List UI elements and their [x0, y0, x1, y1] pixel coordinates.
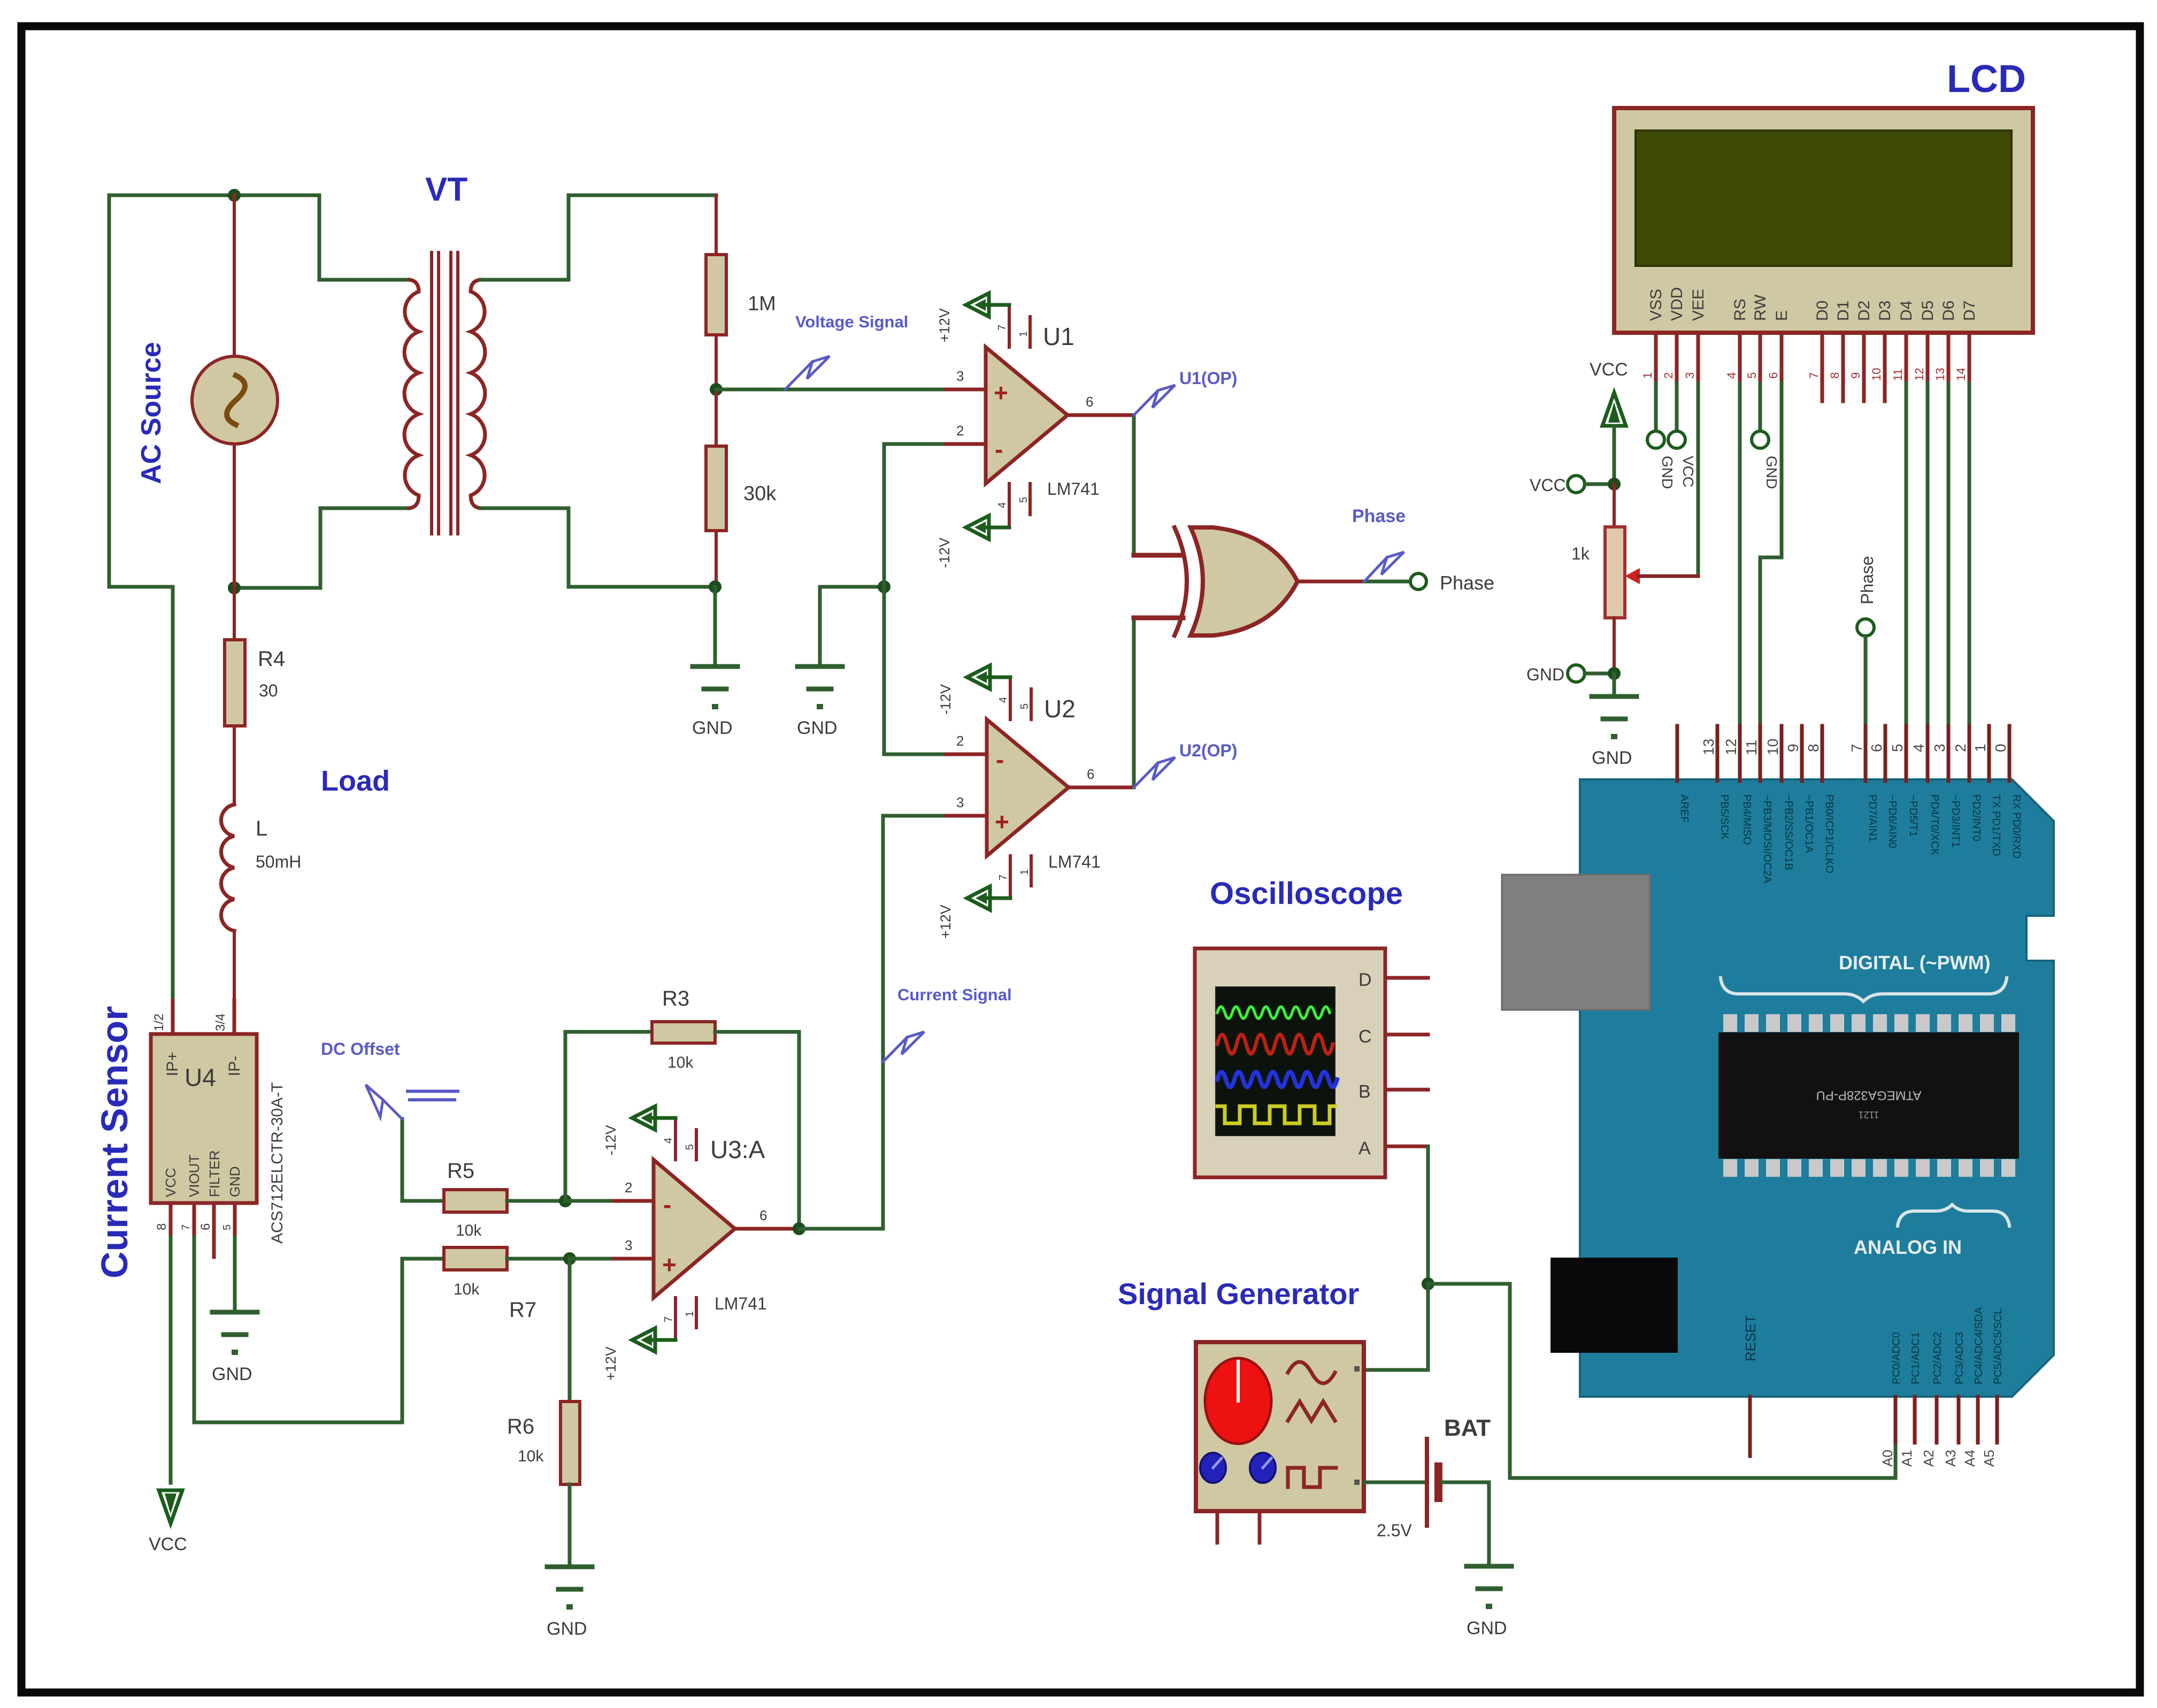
svg-text:1: 1 [684, 1311, 696, 1317]
svg-text:VDD: VDD [1668, 287, 1686, 321]
U4 pin stub IP+ [171, 1000, 175, 1034]
ATMEGA328P chip pads top [1723, 1014, 2015, 1032]
svg-text:5: 5 [1889, 744, 1906, 752]
svg-text:10k: 10k [456, 1222, 482, 1239]
svg-text:0: 0 [1992, 744, 2009, 752]
node: R7/R6 junction [563, 1252, 576, 1265]
svg-text:8: 8 [1828, 372, 1841, 379]
Arduino Uno board [1580, 779, 2054, 1397]
svg-text:GND: GND [1592, 748, 1632, 768]
svg-text:1/2: 1/2 [152, 1014, 166, 1031]
svg-text:R3: R3 [662, 987, 689, 1010]
node: VCC junction [1608, 478, 1621, 491]
resistor 1M [706, 255, 726, 335]
power +12V arrow at U2 bottom [988, 897, 1010, 900]
svg-text:PC1/ADC1: PC1/ADC1 [1910, 1332, 1922, 1384]
analog bracket [1898, 1205, 2009, 1226]
transformer VT secondary coil [471, 280, 485, 508]
op-amp U2 pin3 stub [883, 814, 946, 818]
resistor R3 right wire [715, 1032, 799, 1229]
svg-text:4: 4 [1910, 744, 1927, 752]
probe Voltage Signal [785, 362, 812, 389]
wire: AC source bottom lead [233, 442, 236, 588]
svg-text:Current Sensor: Current Sensor [94, 1006, 135, 1278]
svg-text:U1(OP): U1(OP) [1179, 369, 1237, 388]
LCD screen [1636, 131, 2012, 266]
svg-text:5: 5 [1745, 372, 1759, 379]
svg-text:10: 10 [1764, 739, 1781, 755]
Arduino top pin stubs [1677, 726, 2009, 781]
svg-text:12: 12 [1913, 368, 1926, 381]
XOR gate U5 [1175, 527, 1187, 635]
svg-text:7: 7 [663, 1316, 674, 1322]
AC source V1 [192, 356, 278, 444]
svg-text:D: D [1358, 970, 1372, 990]
U4 pin stub IP- [233, 1000, 236, 1034]
svg-text:RS: RS [1731, 298, 1749, 321]
svg-text:10: 10 [1870, 368, 1883, 381]
wire: voltage signal to U1 pin3 [716, 388, 946, 392]
svg-text:PC5/ADC5/SCL: PC5/ADC5/SCL [1992, 1308, 2004, 1384]
svg-text:U1: U1 [1043, 323, 1074, 350]
probe Phase [1364, 557, 1387, 581]
svg-text:3: 3 [625, 1237, 632, 1253]
svg-text:10k: 10k [454, 1281, 480, 1298]
svg-text:~PB2/SS/OC1B: ~PB2/SS/OC1B [1783, 794, 1794, 870]
svg-text:D6: D6 [1940, 301, 1958, 321]
wire: junction to U3A pin2 [565, 1199, 613, 1203]
signal generator output pins [1354, 1366, 1360, 1372]
svg-text:LM741: LM741 [1048, 852, 1101, 871]
node: U1/U2 inverting input junction [878, 580, 891, 593]
svg-text:Phase: Phase [1440, 572, 1494, 594]
wire: junction up to U1 pin2 and down to U2 pin2 [882, 444, 886, 754]
svg-text:VCC: VCC [1680, 456, 1697, 487]
node: 30k bottom junction [709, 580, 721, 593]
svg-text:-12V: -12V [603, 1125, 619, 1155]
svg-text:GND: GND [1659, 456, 1676, 489]
terminal VCC (VDD) [1668, 431, 1685, 448]
svg-text:PC4/ADC4/SDA: PC4/ADC4/SDA [1973, 1307, 1985, 1384]
svg-text:Load: Load [321, 765, 390, 797]
op-amp U1 [986, 347, 1068, 484]
svg-text:6: 6 [1086, 394, 1093, 410]
svg-text:TX PD1/TXD: TX PD1/TXD [1990, 794, 2002, 856]
svg-text:R4: R4 [258, 647, 285, 671]
terminal GND (RW) [1752, 431, 1769, 448]
svg-text:FILTER: FILTER [206, 1150, 222, 1197]
svg-text:R7: R7 [509, 1298, 536, 1322]
svg-text:7: 7 [996, 325, 1008, 331]
ground under R6 [547, 1567, 592, 1610]
op-amp U3:A [654, 1160, 735, 1298]
op-amp U2 [987, 719, 1069, 856]
svg-text:VEE: VEE [1690, 289, 1707, 321]
svg-text:9: 9 [1785, 744, 1801, 752]
svg-text:Phase: Phase [1857, 556, 1877, 604]
svg-text:6: 6 [1087, 766, 1094, 782]
svg-text:6: 6 [198, 1223, 213, 1230]
svg-text:VCC: VCC [163, 1168, 179, 1197]
svg-text:3: 3 [1683, 372, 1697, 379]
svg-text:7: 7 [1807, 372, 1821, 379]
wire: RW to GND terminal [1759, 384, 1762, 431]
power VCC down-arrow [159, 1490, 182, 1523]
svg-text:A4: A4 [1962, 1450, 1978, 1467]
svg-text:RW: RW [1752, 294, 1769, 321]
terminal Phase output [1410, 573, 1426, 589]
svg-text:Phase: Phase [1352, 506, 1406, 526]
svg-text:BAT: BAT [1444, 1415, 1491, 1441]
wire: U4 VIOUT to R7 input [194, 1237, 444, 1422]
wire: U1 out down to XOR input A [1132, 415, 1136, 555]
svg-text:VCC: VCC [1590, 359, 1628, 380]
svg-text:PC3/ADC3: PC3/ADC3 [1954, 1332, 1966, 1384]
potentiometer RV1 1k top lead [1613, 484, 1616, 527]
svg-text:14: 14 [1954, 368, 1968, 381]
svg-text:R6: R6 [507, 1415, 534, 1438]
power +12V arrow at U1 [987, 303, 1009, 307]
current sensor U4 ACS712 [151, 1034, 257, 1203]
wire: U2 out up to XOR input B [1132, 618, 1136, 787]
wire: R6 to ground [568, 1484, 572, 1567]
ATMEGA328P chip pads bottom [1723, 1159, 2015, 1177]
svg-text:13: 13 [1700, 739, 1717, 755]
resistor 1M leads [715, 195, 718, 255]
svg-text:VSS: VSS [1647, 289, 1665, 321]
svg-text:4: 4 [1725, 372, 1738, 379]
wire: U4 VCC pin down to VCC arrow [169, 1237, 173, 1483]
svg-text:10k: 10k [518, 1447, 544, 1465]
signal generator waveform glyphs [1288, 1362, 1335, 1383]
svg-text:1: 1 [1018, 331, 1030, 337]
Arduino top pin labels [1678, 794, 2022, 884]
svg-text:-: - [663, 1191, 671, 1219]
svg-text:A1: A1 [1899, 1450, 1915, 1467]
wire: left loop down to U4 IP+ column [109, 195, 173, 1000]
resistor R3 feedback left wire [565, 1032, 652, 1201]
probe Current Signal [883, 1037, 907, 1062]
svg-text:D1: D1 [1834, 301, 1852, 321]
U1 positive supply pins 7,1 [1008, 305, 1011, 347]
power -12V arrow at U2 top [988, 676, 1010, 679]
wire: VSS to GND terminal [1654, 384, 1658, 431]
svg-text:L: L [256, 817, 267, 840]
wire: Phase terminal down to Arduino pin 7 [1864, 636, 1868, 779]
svg-text:VCC: VCC [1530, 476, 1566, 495]
battery BAT 2.5V [1425, 1439, 1429, 1526]
Arduino analog pin labels [1891, 1307, 2004, 1384]
svg-text:PC2/ADC2: PC2/ADC2 [1932, 1332, 1944, 1384]
svg-text:D2: D2 [1855, 301, 1873, 321]
svg-text:+: + [994, 379, 1008, 407]
probe U1(OP) [1134, 390, 1158, 415]
svg-text:Oscilloscope: Oscilloscope [1210, 876, 1403, 911]
svg-text:C: C [1358, 1027, 1372, 1047]
scope trace yellow square [1217, 1106, 1335, 1123]
wire: U3A output pin6 [735, 1227, 799, 1231]
svg-text:D5: D5 [1919, 301, 1937, 321]
svg-text:~PB3/MOSI/OC2A: ~PB3/MOSI/OC2A [1761, 794, 1773, 884]
wire: VEE down to potentiometer wiper [1638, 384, 1698, 576]
svg-text:+12V: +12V [603, 1346, 619, 1381]
svg-text:D0: D0 [1814, 301, 1831, 321]
svg-text:IP-: IP- [226, 1056, 243, 1076]
ground under battery [1467, 1566, 1511, 1609]
power -12V arrow at U1 [987, 526, 1009, 530]
ground under 30k [693, 667, 738, 709]
svg-text:ACS712ELCTR-30A-T: ACS712ELCTR-30A-T [268, 1082, 286, 1244]
wire: AC source top lead [233, 195, 236, 358]
svg-text:+12V: +12V [938, 905, 954, 939]
signal generator bottom stubs [1216, 1511, 1219, 1543]
LCD pin numbers 1-14 [1641, 368, 1968, 381]
ground under U4 [212, 1312, 257, 1355]
wire: junction to U3A pin3 [570, 1257, 613, 1261]
power jack [1550, 1258, 1678, 1353]
svg-text:1k: 1k [1571, 544, 1590, 563]
wire: U2 output pin6 [1069, 786, 1134, 790]
SEC3 [1526, 58, 2033, 779]
svg-text:+: + [662, 1251, 677, 1278]
svg-text:GND: GND [547, 1619, 587, 1639]
oscilloscope screen [1216, 987, 1335, 1136]
power -12V arrow at U3A top [654, 1116, 675, 1120]
ATMEGA328P chip [1718, 1032, 2019, 1159]
svg-text:A3: A3 [1943, 1450, 1959, 1467]
svg-text:2: 2 [956, 423, 964, 439]
svg-text:3: 3 [956, 368, 964, 384]
svg-text:DIGITAL (~PWM): DIGITAL (~PWM) [1839, 952, 1991, 974]
node: U3A output junction [793, 1222, 805, 1235]
svg-text:GND: GND [797, 718, 838, 738]
svg-text:7: 7 [997, 875, 1009, 880]
scope trace blue [1217, 1072, 1337, 1087]
op-amp U1 pin3 stub [946, 388, 986, 392]
svg-text:30k: 30k [743, 482, 777, 505]
svg-text:~PD3/INT1: ~PD3/INT1 [1949, 794, 1961, 847]
wire: D5 to Arduino [1926, 384, 1930, 779]
U1 negative supply pins 4,5 [1008, 484, 1011, 527]
wire: U1 inverting node to GND [820, 587, 884, 667]
wire: L to U4 IP- [233, 931, 236, 1000]
svg-text:7: 7 [1848, 744, 1865, 752]
U2 negative supply pins 4,5 [1009, 677, 1012, 719]
resistor R6 top wire [568, 1259, 572, 1401]
U3A negative supply pins 4,5 [674, 1118, 677, 1160]
resistor R7 [444, 1247, 507, 1270]
signal generator body [1196, 1342, 1364, 1511]
node: AC bottom junction [228, 581, 241, 594]
U4 bottom pin stubs 8,7,6,5 [169, 1203, 173, 1237]
node: voltage divider tap [710, 383, 723, 396]
terminal GND (VSS) [1647, 431, 1664, 448]
wire: junction down-left to signal generator output [1365, 1284, 1428, 1370]
svg-text:-12V: -12V [937, 538, 953, 568]
scope trace green [1217, 1007, 1330, 1018]
svg-text:4: 4 [663, 1138, 674, 1144]
resistor 30k leads [715, 389, 718, 446]
wire: top loop from left corner to transformer primary top [109, 195, 409, 280]
svg-text:30: 30 [259, 681, 278, 700]
wire: secondary bottom lead [480, 508, 715, 587]
ground at U1 inverting network [797, 667, 842, 709]
wire: battery to ground [1442, 1482, 1489, 1566]
svg-text:U4: U4 [185, 1063, 216, 1091]
svg-text:5: 5 [221, 1224, 233, 1230]
svg-text:PD7/AIN1: PD7/AIN1 [1867, 794, 1878, 842]
svg-text:-12V: -12V [938, 684, 954, 715]
svg-text:LM741: LM741 [715, 1294, 767, 1313]
svg-text:PB4/MISO: PB4/MISO [1741, 794, 1753, 845]
node: GND junction [1608, 667, 1621, 680]
svg-text:D3: D3 [1876, 301, 1894, 321]
svg-text:~PD6/AIN0: ~PD6/AIN0 [1886, 794, 1898, 848]
svg-text:5: 5 [1018, 497, 1030, 503]
svg-text:50mH: 50mH [256, 852, 301, 871]
potentiometer RV1 1k [1605, 527, 1625, 618]
U2 positive supply pins 7,1 [1009, 856, 1012, 898]
svg-text:D4: D4 [1898, 301, 1915, 321]
svg-text:ANALOG IN: ANALOG IN [1854, 1236, 1962, 1258]
svg-text:A: A [1358, 1138, 1371, 1159]
resistor 30k [706, 446, 726, 531]
resistor R6 [561, 1401, 580, 1484]
svg-text:IP+: IP+ [164, 1052, 181, 1076]
Arduino analog pin stubs A0-A5 [1895, 1397, 1997, 1443]
svg-text:2: 2 [625, 1179, 632, 1196]
svg-text:GND: GND [1467, 1618, 1507, 1638]
svg-text:4: 4 [996, 502, 1008, 508]
wire: scope A down to junction [1426, 1146, 1430, 1284]
svg-text:VT: VT [425, 171, 467, 208]
svg-text:ATMEGA328P-PU: ATMEGA328P-PU [1816, 1088, 1922, 1102]
wire: XOR output [1298, 580, 1364, 584]
XOR gate input stubs [1134, 553, 1183, 558]
analog pin names A0-A5 [1879, 1450, 1997, 1467]
svg-text:-: - [996, 746, 1004, 773]
svg-text:1121: 1121 [1859, 1109, 1879, 1120]
node: R5/R3 junction [559, 1194, 572, 1207]
svg-text:U3:A: U3:A [710, 1136, 765, 1163]
svg-text:1: 1 [1972, 744, 1989, 752]
svg-text:8: 8 [155, 1223, 169, 1230]
ground under potentiometer [1592, 696, 1637, 739]
wire: D7 to Arduino [1968, 384, 1971, 779]
resistor R4 [225, 640, 245, 726]
LCD pin stubs [1656, 333, 1969, 401]
wire: 30k junction to GND [713, 587, 717, 667]
svg-text:2: 2 [1952, 744, 1969, 752]
svg-text:PD4/T0/XCK: PD4/T0/XCK [1929, 794, 1940, 856]
transformer VT core [430, 252, 433, 534]
digital bracket [1721, 978, 2007, 1001]
svg-text:RESET: RESET [1743, 1315, 1759, 1361]
signal generator red knob [1205, 1358, 1271, 1444]
svg-text:1M: 1M [748, 293, 776, 315]
svg-text:AREF: AREF [1678, 794, 1690, 823]
svg-text:8: 8 [1805, 744, 1822, 752]
wire: signal generator minus to battery [1365, 1481, 1425, 1484]
svg-text:10k: 10k [667, 1054, 694, 1071]
svg-text:PB5/SCK: PB5/SCK [1718, 794, 1730, 840]
svg-text:-: - [995, 435, 1003, 463]
svg-text:2: 2 [956, 733, 964, 749]
svg-text:D7: D7 [1961, 301, 1978, 321]
probe U2(OP) [1134, 763, 1158, 787]
svg-text:GND: GND [1763, 456, 1780, 489]
RESET pin stub [1748, 1397, 1752, 1456]
op-amp U1 pin2 stub [884, 442, 946, 446]
signal generator blue knob 2 [1250, 1453, 1276, 1483]
svg-text:LCD: LCD [1947, 58, 2026, 101]
LCD pin name labels [1647, 287, 1978, 321]
svg-text:2: 2 [1662, 372, 1675, 379]
svg-text:~PD5/T1: ~PD5/T1 [1907, 794, 1919, 837]
scope trace red [1217, 1035, 1333, 1054]
wire: to ground symbol [1613, 673, 1616, 696]
svg-text:1: 1 [1019, 869, 1031, 875]
svg-text:+: + [995, 808, 1009, 836]
LCD module LM016L body [1614, 108, 2033, 333]
node: AC top junction [228, 189, 241, 202]
svg-text:2.5V: 2.5V [1377, 1521, 1412, 1540]
resistor R3 [652, 1022, 715, 1043]
svg-text:GND: GND [1526, 665, 1564, 684]
wire: E down to Arduino with jog [1760, 384, 1782, 779]
svg-text:RX PD0/RXD: RX PD0/RXD [2010, 794, 2022, 859]
svg-text:13: 13 [1933, 368, 1947, 381]
svg-text:LM741: LM741 [1047, 479, 1100, 499]
wire: U1 output pin6 [1068, 413, 1134, 417]
svg-text:6: 6 [1868, 744, 1885, 752]
svg-text:3/4: 3/4 [213, 1014, 228, 1031]
svg-text:A5: A5 [1981, 1450, 1997, 1467]
svg-text:GND: GND [227, 1166, 243, 1197]
svg-text:PD2/INT0: PD2/INT0 [1970, 794, 1982, 841]
inductor L [221, 805, 234, 931]
svg-text:A0: A0 [1879, 1450, 1895, 1467]
SEC1 [94, 588, 1012, 1639]
wire: secondary top lead [480, 195, 716, 280]
wire: junction to Arduino A0 [1428, 1284, 1895, 1478]
SEC4 [1502, 726, 2054, 1467]
power +12V arrow at U3A bottom [654, 1338, 675, 1342]
svg-text:9: 9 [1849, 372, 1862, 379]
SEC2 [1118, 876, 1895, 1638]
wire: D6 to Arduino [1947, 384, 1951, 779]
transformer VT primary coil [404, 280, 419, 508]
svg-text:3: 3 [956, 794, 964, 810]
svg-text:E: E [1773, 310, 1791, 321]
svg-text:Signal Generator: Signal Generator [1118, 1277, 1359, 1311]
svg-text:~PB1/OC1A: ~PB1/OC1A [1803, 794, 1815, 853]
svg-text:5: 5 [684, 1144, 696, 1150]
wire: VDD to VCC terminal [1675, 384, 1679, 431]
Arduino digital pin numbers 13..0 [1700, 739, 2009, 755]
svg-text:AC Source: AC Source [136, 342, 167, 484]
svg-text:R5: R5 [447, 1159, 474, 1183]
svg-text:B: B [1358, 1082, 1371, 1102]
svg-text:6: 6 [759, 1207, 767, 1223]
node: scope A / signal generator junction [1422, 1277, 1434, 1290]
signal generator blue knob 1 [1200, 1453, 1226, 1483]
svg-text:+12V: +12V [937, 308, 953, 342]
potentiometer bottom lead [1613, 618, 1616, 673]
svg-text:1: 1 [1641, 372, 1654, 379]
svg-text:U2(OP): U2(OP) [1179, 741, 1237, 760]
svg-text:6: 6 [1767, 372, 1780, 379]
